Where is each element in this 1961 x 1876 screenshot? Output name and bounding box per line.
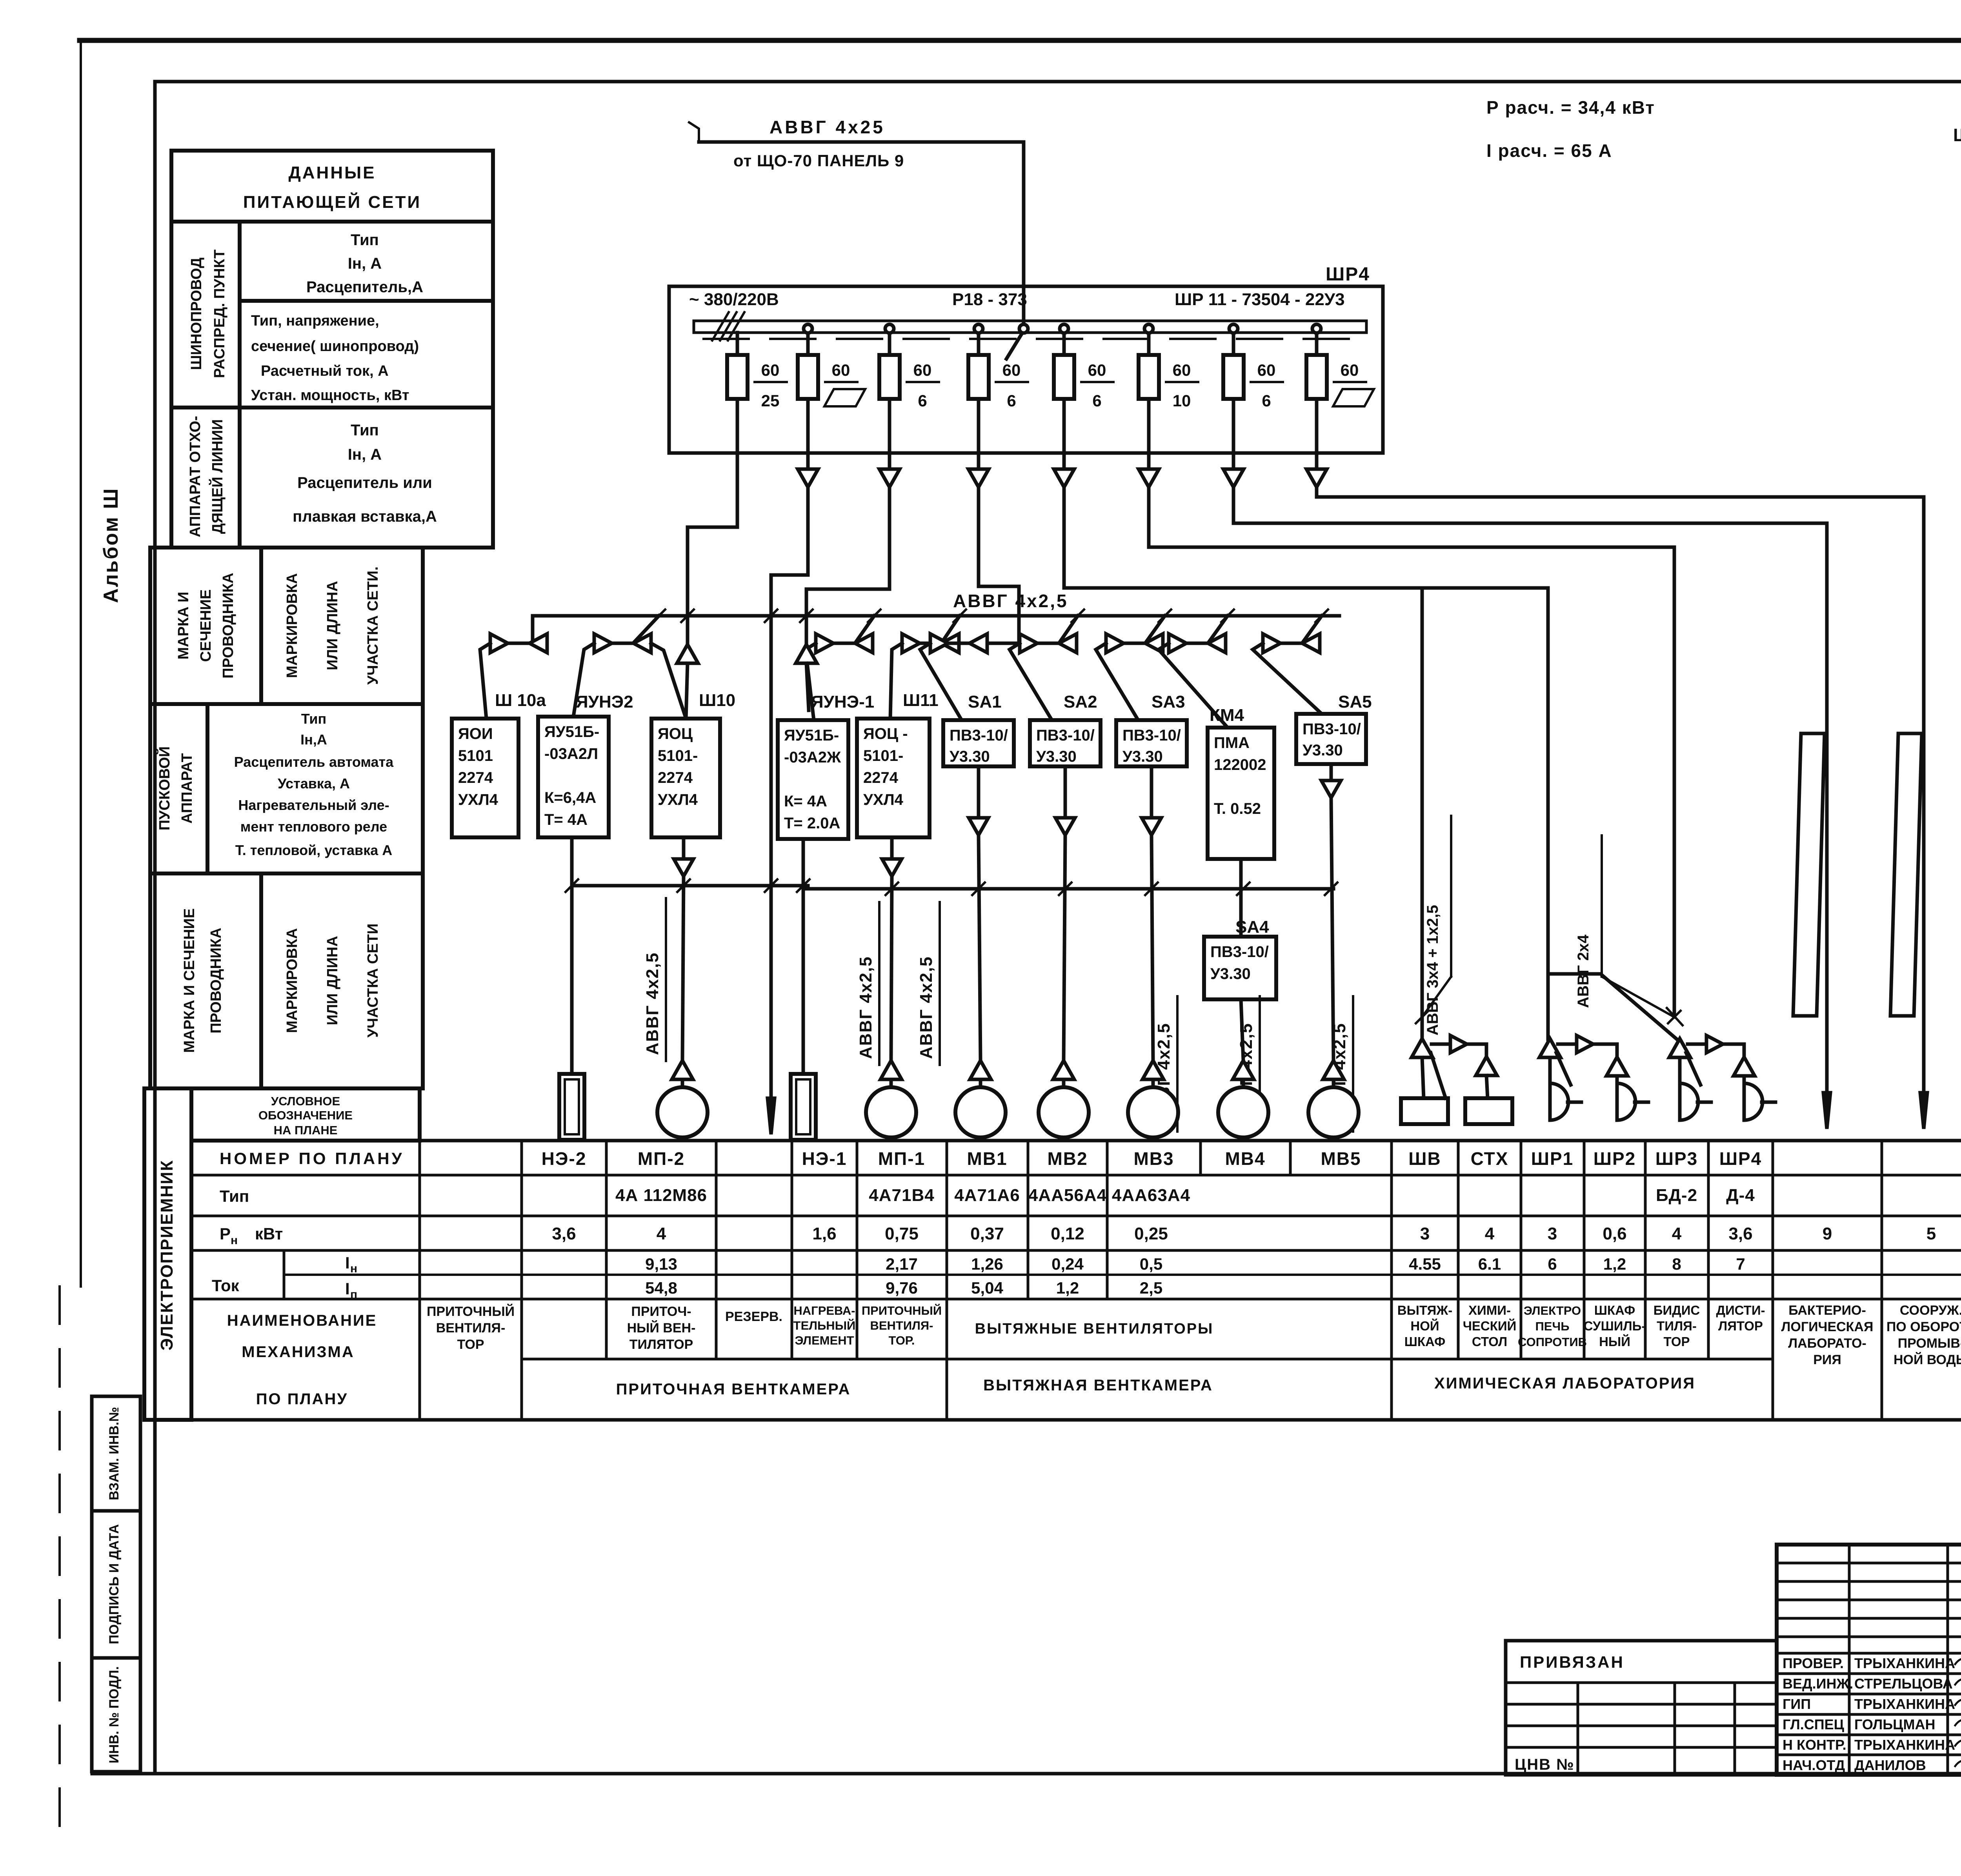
plug connector Sh10 riser [677, 644, 698, 663]
busbar tap circle 4 [974, 324, 983, 333]
svg-text:0,5: 0,5 [1140, 1255, 1162, 1273]
svg-text:60: 60 [1088, 361, 1106, 379]
svg-text:Iн, А: Iн, А [348, 446, 382, 463]
wire SA box down to motor MV2 [1064, 766, 1067, 818]
svg-text:МВ1: МВ1 [967, 1148, 1007, 1169]
wire ShV STX feeder [1421, 588, 1424, 1039]
svg-text:МЕХАНИЗМА: МЕХАНИЗМА [242, 1343, 354, 1361]
tok sub cell [283, 1250, 286, 1299]
wire YaUNE2 box to heater NE-2 [570, 837, 574, 1074]
motor MV1 [955, 1087, 1006, 1137]
svg-text:ПРИТОЧНАЯ ВЕНТКАМЕРА: ПРИТОЧНАЯ ВЕНТКАМЕРА [616, 1381, 851, 1398]
svg-text:9,13: 9,13 [645, 1255, 677, 1273]
svg-text:25: 25 [761, 391, 780, 410]
luminaire panel symbol 1 [1793, 733, 1825, 1016]
svg-text:ЛОГИЧЕСКАЯ: ЛОГИЧЕСКАЯ [1781, 1319, 1874, 1334]
svg-text:Тип: Тип [220, 1187, 249, 1205]
svg-text:60: 60 [1257, 361, 1276, 379]
heater NE-1 [791, 1074, 816, 1140]
svg-text:I: I [345, 1279, 350, 1298]
svg-text:У3.30: У3.30 [950, 748, 990, 765]
svg-text:ГИП: ГИП [1783, 1696, 1811, 1712]
svg-text:ДЯЩЕЙ ЛИНИИ: ДЯЩЕЙ ЛИНИИ [208, 419, 226, 534]
plug connector YaUNE-1 riser [796, 644, 817, 663]
svg-text:ЛЯТОР: ЛЯТОР [1718, 1319, 1763, 1333]
resistive load CTX [1465, 1098, 1512, 1124]
svg-text:0,37: 0,37 [970, 1224, 1004, 1243]
svg-text:РАСПРЕД. ПУНКТ: РАСПРЕД. ПУНКТ [211, 249, 228, 378]
wire bus tap to YaUNE-1 connector [856, 616, 874, 642]
wire SA5 connector to box [1253, 643, 1322, 714]
wire Sh11 box down [890, 837, 894, 859]
svg-text:4А 112М86: 4А 112М86 [615, 1186, 707, 1205]
wire YaUNE2 connector to Sh10 box [651, 643, 686, 719]
svg-text:~ 380/220В: ~ 380/220В [689, 290, 779, 309]
plug connector below MV3 [1142, 818, 1161, 835]
svg-text:5101-: 5101- [863, 747, 903, 764]
svg-text:60: 60 [1341, 361, 1359, 379]
wire Sh10a connector to box [480, 643, 490, 719]
svg-text:0,6: 0,6 [1603, 1224, 1626, 1243]
svg-text:Р расч. = 34,4 кВт: Р расч. = 34,4 кВт [1486, 97, 1655, 118]
svg-text:НА ПЛАНЕ: НА ПЛАНЕ [274, 1123, 338, 1137]
feeder tap circle [1019, 324, 1028, 333]
feeder switch slash [1006, 329, 1024, 359]
fuse FU2 [798, 355, 818, 399]
socket ShR2 [1617, 1083, 1635, 1120]
svg-text:3,6: 3,6 [1728, 1224, 1752, 1243]
node wire B [806, 887, 1333, 891]
svg-text:5101-: 5101- [658, 747, 698, 764]
svg-text:1,2: 1,2 [1603, 1255, 1626, 1273]
svg-text:ПВ3-10/: ПВ3-10/ [1210, 943, 1269, 961]
wire bus tap to KM4 connector [1209, 616, 1228, 642]
svg-text:ПЕЧЬ: ПЕЧЬ [1535, 1319, 1569, 1333]
wire drop4 to SA1 connector [979, 487, 1019, 643]
motor MP-1 [866, 1087, 916, 1137]
svg-text:К=6,4А: К=6,4А [544, 789, 596, 806]
svg-text:4.55: 4.55 [1409, 1255, 1441, 1273]
wire Sh10 box down [682, 837, 686, 859]
svg-text:4АА56А4: 4АА56А4 [1028, 1186, 1107, 1205]
svg-text:ПО ОБОРОТУ: ПО ОБОРОТУ [1886, 1319, 1961, 1334]
socket ShR1 [1550, 1083, 1568, 1120]
svg-text:Тип: Тип [351, 422, 379, 439]
table column lines [520, 1141, 523, 1420]
svg-text:ЭЛЕМЕНТ: ЭЛЕМЕНТ [795, 1334, 854, 1347]
svg-text:4: 4 [1672, 1224, 1682, 1243]
wire to motor MP-2 [682, 876, 684, 1061]
svg-text:SA1: SA1 [968, 692, 1002, 711]
busbar tap circle 5 [1060, 324, 1068, 333]
svg-text:МАРКИРОВКА: МАРКИРОВКА [284, 573, 300, 678]
svg-text:ПРИВЯЗАН: ПРИВЯЗАН [1520, 1653, 1624, 1671]
svg-text:МП-1: МП-1 [878, 1148, 925, 1169]
header band marka i sechenie 2 [150, 873, 423, 1088]
fuse circuit 6 wire [1147, 333, 1151, 453]
wire drop3 to YaUNE-1 riser [806, 487, 890, 644]
CTX branch connector [1476, 1057, 1497, 1075]
svg-text:ОБОЗНАЧЕНИЕ: ОБОЗНАЧЕНИЕ [258, 1108, 353, 1122]
fuse FU4 [968, 355, 989, 399]
wire KM4 connector to box [1159, 643, 1228, 728]
svg-text:60: 60 [1002, 361, 1021, 379]
node wire A [572, 884, 808, 888]
svg-text:Ш 10а: Ш 10а [495, 691, 546, 710]
svg-text:ВЫТЯЖНЫЕ ВЕНТИЛЯТОРЫ: ВЫТЯЖНЫЕ ВЕНТИЛЯТОРЫ [975, 1321, 1214, 1337]
svg-text:SA3: SA3 [1151, 692, 1185, 711]
plug connector below panel circuit 2 [806, 453, 810, 469]
svg-text:Расцепитель или: Расцепитель или [297, 474, 432, 491]
svg-text:ТОР: ТОР [1663, 1334, 1690, 1349]
svg-text:НЫЙ: НЫЙ [1599, 1334, 1630, 1349]
wire bus end to Sh10a connector [533, 616, 547, 643]
svg-text:ЩО 70 ПАНЕЛЬ 1: ЩО 70 ПАНЕЛЬ 1 [1953, 125, 1961, 145]
svg-text:Т= 2.0А: Т= 2.0А [784, 815, 840, 832]
svg-text:0,12: 0,12 [1051, 1224, 1084, 1243]
svg-text:кВт: кВт [255, 1225, 283, 1243]
svg-text:4АА63А4: 4АА63А4 [1112, 1186, 1190, 1205]
wire drop5 to ShV and ShR1 feeders [1064, 487, 1548, 588]
motor MV2 plug connector [1053, 1061, 1074, 1079]
svg-text:ГОЛЬЦМАН: ГОЛЬЦМАН [1854, 1716, 1935, 1732]
svg-text:ПРОВЕР.: ПРОВЕР. [1783, 1655, 1844, 1671]
svg-text:0,24: 0,24 [1051, 1255, 1084, 1273]
svg-text:ПРОВОДНИКА: ПРОВОДНИКА [208, 928, 224, 1034]
svg-text:ЯОЦ: ЯОЦ [658, 725, 693, 742]
svg-text:ПРОМЫВ-: ПРОМЫВ- [1898, 1336, 1961, 1351]
wire SA4 to motor MV4 [1241, 999, 1243, 1061]
svg-text:60: 60 [832, 361, 850, 379]
starter SA1 box [943, 720, 1014, 766]
svg-text:Нагревательный эле-: Нагревательный эле- [238, 797, 389, 813]
svg-text:Ток: Ток [212, 1276, 240, 1295]
starter SA5 box [1296, 714, 1366, 764]
washing water feeder arrow [1920, 1093, 1927, 1129]
svg-text:РИЯ: РИЯ [1813, 1352, 1841, 1367]
motor MP-1 plug connector [880, 1061, 902, 1079]
junction tick ShR feeder [1667, 1008, 1683, 1025]
svg-text:СТХ: СТХ [1471, 1148, 1509, 1169]
svg-text:2274: 2274 [458, 769, 493, 786]
wire Sh11 connector to box [890, 643, 902, 719]
svg-text:НЭ-2: НЭ-2 [542, 1148, 587, 1169]
plug connector pair YaUNE2 [594, 634, 612, 653]
svg-text:ШКАФ: ШКАФ [1594, 1303, 1635, 1317]
svg-text:НЫЙ ВЕН-: НЫЙ ВЕН- [627, 1320, 696, 1336]
plug connector pair Sh11 [902, 634, 920, 653]
svg-text:Ш11: Ш11 [903, 691, 939, 710]
wire bus tap to SA3 connector [1146, 616, 1165, 642]
svg-text:ШВ: ШВ [1408, 1148, 1441, 1169]
svg-text:SA2: SA2 [1064, 692, 1097, 711]
plug connector below panel circuit 4 [977, 453, 980, 469]
fuse FU1 [727, 355, 748, 399]
svg-text:ШР3: ШР3 [1655, 1148, 1698, 1169]
svg-text:ДАНИЛОВ: ДАНИЛОВ [1854, 1757, 1926, 1773]
svg-text:9: 9 [1823, 1224, 1832, 1243]
svg-text:ТИЛЯ-: ТИЛЯ- [1657, 1319, 1697, 1333]
svg-text:ТРЫХАНКИНА: ТРЫХАНКИНА [1854, 1696, 1955, 1712]
svg-text:МАРКА И СЕЧЕНИЕ: МАРКА И СЕЧЕНИЕ [181, 908, 198, 1053]
svg-text:3,6: 3,6 [552, 1224, 576, 1243]
svg-text:НОЙ: НОЙ [1410, 1318, 1439, 1333]
socket ShR3 [1680, 1083, 1698, 1120]
plug connector below panel circuit 8 [1315, 453, 1319, 469]
svg-text:ПРОВОДНИКА: ПРОВОДНИКА [220, 573, 236, 679]
svg-text:СООРУЖ.: СООРУЖ. [1900, 1303, 1961, 1318]
plug connector pair SA3 [1106, 634, 1124, 653]
busbar [694, 321, 1366, 333]
svg-text:НАИМЕНОВАНИЕ: НАИМЕНОВАНИЕ [227, 1312, 377, 1329]
svg-text:ЯУНЭ-1: ЯУНЭ-1 [811, 692, 874, 711]
svg-text:МВ5: МВ5 [1321, 1148, 1361, 1169]
feeder end hook [689, 122, 699, 142]
svg-text:SA5: SA5 [1338, 692, 1372, 711]
svg-text:НОМЕР ПО ПЛАНУ: НОМЕР ПО ПЛАНУ [220, 1149, 404, 1168]
svg-text:6: 6 [1092, 391, 1101, 410]
laboratory feeder arrow [1823, 1093, 1830, 1129]
starter Sh10 box [651, 719, 720, 837]
svg-text:У3.30: У3.30 [1210, 965, 1251, 983]
svg-text:Тип: Тип [301, 711, 327, 727]
resistive load ShV [1401, 1098, 1448, 1124]
svg-text:СУШИЛЬ-: СУШИЛЬ- [1584, 1319, 1646, 1333]
fuse FU7 [1223, 355, 1244, 399]
svg-text:ТЕЛЬНЫЙ: ТЕЛЬНЫЙ [793, 1318, 856, 1332]
svg-text:НЭ-1: НЭ-1 [802, 1148, 847, 1169]
svg-text:4А71В4: 4А71В4 [869, 1186, 934, 1205]
svg-text:3: 3 [1548, 1224, 1557, 1243]
svg-text:ХИМИ-: ХИМИ- [1468, 1303, 1511, 1317]
motor MV3 plug connector [1142, 1061, 1164, 1079]
svg-text:54,8: 54,8 [645, 1279, 677, 1297]
fuse FU5 [1054, 355, 1074, 399]
svg-text:ЧЕСКИЙ: ЧЕСКИЙ [1463, 1318, 1517, 1333]
wire drop6 to ShR3 feeder [1149, 487, 1674, 1017]
svg-text:ЦНВ №: ЦНВ № [1515, 1756, 1575, 1773]
svg-text:-03А2Ж: -03А2Ж [784, 749, 841, 766]
svg-text:3: 3 [1420, 1224, 1430, 1243]
svg-text:АВВГ 4х2,5: АВВГ 4х2,5 [953, 591, 1068, 611]
motor MV1 plug connector [970, 1061, 991, 1079]
svg-text:1,2: 1,2 [1056, 1279, 1079, 1297]
svg-text:У3.30: У3.30 [1122, 748, 1163, 765]
svg-text:60: 60 [913, 361, 932, 379]
wire ShR3/ShR4 branch diagonal [1548, 974, 1683, 1044]
svg-text:ПОДПИСЬ И ДАТА: ПОДПИСЬ И ДАТА [107, 1524, 122, 1644]
plug connector below MV1 [969, 818, 988, 835]
svg-text:Расцепитель,А: Расцепитель,А [306, 278, 423, 296]
svg-text:ПВ3-10/: ПВ3-10/ [1302, 721, 1361, 738]
plug connector pair SA5 [1263, 634, 1281, 653]
svg-text:НАЧ.ОТД: НАЧ.ОТД [1783, 1757, 1845, 1773]
header band shinoprovod [171, 222, 493, 408]
fuse FU8 [1306, 355, 1327, 399]
svg-text:ЯУНЭ2: ЯУНЭ2 [576, 692, 633, 711]
svg-text:ШКАФ: ШКАФ [1404, 1334, 1445, 1349]
starter Sh10a box [452, 719, 518, 837]
wire SA5 box down to motor MV5 [1330, 764, 1333, 781]
wire KM4 box to SA4 [1239, 859, 1243, 937]
heater NE-2 [559, 1074, 584, 1140]
sidebar box podpis i data [92, 1511, 140, 1658]
svg-text:Д-4: Д-4 [1726, 1186, 1755, 1205]
table row lines [191, 1174, 1961, 1177]
fuse FU6 [1139, 355, 1159, 399]
svg-text:МВ4: МВ4 [1225, 1148, 1265, 1169]
svg-text:Р: Р [220, 1225, 231, 1243]
plug connector pair KM4 [1169, 634, 1186, 653]
svg-text:АППАРАТ ОТХО-: АППАРАТ ОТХО- [187, 416, 204, 537]
svg-text:6.1: 6.1 [1478, 1255, 1501, 1273]
svg-text:ВЗАМ. ИНВ.№: ВЗАМ. ИНВ.№ [107, 1407, 122, 1500]
connector bus wire AVVG 4x2,5 [533, 614, 1339, 618]
svg-text:ЯУ51Б-: ЯУ51Б- [544, 723, 599, 741]
svg-text:н: н [350, 1262, 357, 1275]
svg-text:1,26: 1,26 [971, 1255, 1003, 1273]
svg-text:ШР1: ШР1 [1531, 1148, 1574, 1169]
svg-text:4: 4 [1485, 1224, 1495, 1243]
fuse circuit 2 wire [806, 333, 810, 453]
motor MV4 [1218, 1087, 1268, 1137]
svg-text:н: н [231, 1234, 238, 1247]
svg-text:ШР4: ШР4 [1326, 264, 1370, 285]
svg-text:АВВГ 4х25: АВВГ 4х25 [769, 117, 885, 137]
svg-text:СТОЛ: СТОЛ [1472, 1334, 1507, 1349]
svg-text:ШИНОПРОВОД: ШИНОПРОВОД [188, 258, 205, 370]
busbar tap circle 8 [1312, 324, 1321, 333]
plug connector below Sh10 [674, 859, 693, 876]
svg-text:сечение( шинопровод): сечение( шинопровод) [251, 338, 419, 355]
starter YaUNE2 box [538, 717, 609, 837]
svg-text:ПУСКОВОЙ: ПУСКОВОЙ [155, 746, 173, 831]
svg-text:ТРЫХАНКИНА: ТРЫХАНКИНА [1854, 1655, 1955, 1671]
svg-text:ПРИТОЧНЫЙ: ПРИТОЧНЫЙ [427, 1304, 515, 1319]
wire SA box down to motor MV1 [977, 766, 980, 818]
svg-text:ТОР: ТОР [457, 1337, 484, 1352]
svg-text:Расцепитель автомата: Расцепитель автомата [234, 754, 394, 770]
luminaire panel symbol 2 [1890, 733, 1922, 1016]
svg-text:ШР 11 - 73504 - 22У3: ШР 11 - 73504 - 22У3 [1175, 290, 1345, 309]
motor MV2 [1039, 1087, 1089, 1137]
svg-text:АППАРАТ: АППАРАТ [179, 753, 195, 824]
svg-text:БИДИС: БИДИС [1654, 1303, 1700, 1317]
svg-text:Р18 - 373: Р18 - 373 [952, 290, 1027, 309]
svg-text:ВЕНТИЛЯ-: ВЕНТИЛЯ- [436, 1321, 506, 1336]
svg-text:Тип: Тип [351, 231, 379, 249]
reserve feeder arrow [768, 1098, 775, 1134]
svg-text:СЕЧЕНИЕ: СЕЧЕНИЕ [198, 590, 214, 662]
svg-text:ЯОИ: ЯОИ [458, 725, 493, 742]
svg-text:ПИТАЮЩЕЙ СЕТИ: ПИТАЮЩЕЙ СЕТИ [243, 192, 421, 212]
wire bus tap to YaUNE2 connector [634, 616, 659, 642]
plug connector below panel circuit 3 [888, 453, 891, 469]
svg-text:МВ3: МВ3 [1133, 1148, 1174, 1169]
svg-text:У3.30: У3.30 [1302, 742, 1343, 759]
starter KM4 box [1208, 728, 1274, 859]
svg-text:УСЛОВНОЕ: УСЛОВНОЕ [271, 1094, 340, 1108]
svg-text:Устан. мощность, кВт: Устан. мощность, кВт [251, 387, 409, 404]
busbar phase hatch [712, 312, 729, 340]
svg-text:60: 60 [1173, 361, 1191, 379]
svg-text:2274: 2274 [658, 769, 693, 786]
svg-text:УЧАСТКА СЕТИ.: УЧАСТКА СЕТИ. [365, 566, 381, 685]
svg-text:6: 6 [1262, 391, 1271, 410]
motor MV5 [1308, 1087, 1359, 1137]
svg-text:ЯУ51Б-: ЯУ51Б- [784, 727, 839, 744]
svg-text:ДАННЫЕ: ДАННЫЕ [288, 163, 376, 182]
starter Sh11 box [857, 719, 930, 837]
svg-text:п: п [350, 1288, 357, 1301]
svg-text:ГЛ.СПЕЦ: ГЛ.СПЕЦ [1783, 1716, 1845, 1732]
svg-text:МП-2: МП-2 [638, 1148, 685, 1169]
wire bus tap to SA2 connector [1060, 616, 1078, 642]
svg-text:ШР2: ШР2 [1594, 1148, 1636, 1169]
wire SA3 connector to box [1096, 643, 1138, 720]
starter SA3 box [1116, 720, 1187, 766]
neutral dashed line [704, 338, 1353, 340]
motor MP-2 [657, 1087, 708, 1137]
svg-text:К= 4А: К= 4А [784, 793, 827, 810]
svg-text:МАРКА И: МАРКА И [175, 592, 192, 660]
svg-text:122002: 122002 [1214, 756, 1266, 773]
junction tick on ShR3 feeder [1668, 1011, 1681, 1023]
elektropriemnik sidebar [144, 1088, 191, 1420]
svg-text:УЧАСТКА СЕТИ: УЧАСТКА СЕТИ [365, 923, 381, 1037]
svg-text:5101: 5101 [458, 747, 493, 764]
svg-text:6: 6 [1007, 391, 1016, 410]
svg-text:5,04: 5,04 [971, 1279, 1003, 1297]
sidebar box vzam inv [92, 1396, 140, 1511]
svg-text:SA4: SA4 [1235, 917, 1269, 937]
inner frame top [155, 80, 1961, 84]
svg-text:4А71А6: 4А71А6 [954, 1186, 1020, 1205]
wire drop8 to washing water feeder [1317, 487, 1924, 1093]
svg-text:ПВ3-10/: ПВ3-10/ [1122, 727, 1181, 744]
svg-text:6: 6 [918, 391, 927, 410]
busbar tap circle 3 [885, 324, 894, 333]
sheet outer border left [80, 40, 82, 1286]
title block columns [1848, 1545, 1851, 1775]
switch SA4 box [1204, 937, 1276, 999]
svg-text:УХЛ4: УХЛ4 [863, 791, 904, 808]
svg-text:ИЛИ ДЛИНА: ИЛИ ДЛИНА [324, 581, 341, 670]
svg-text:ИНВ. № ПОДЛ.: ИНВ. № ПОДЛ. [107, 1666, 122, 1763]
svg-text:60: 60 [761, 361, 780, 379]
svg-text:Уставка, А: Уставка, А [278, 775, 350, 792]
motor MV3 [1128, 1087, 1178, 1137]
svg-text:РЕЗЕРВ.: РЕЗЕРВ. [725, 1309, 782, 1324]
svg-text:МАРКИРОВКА: МАРКИРОВКА [284, 928, 300, 1033]
plug connector below panel circuit 6 [1147, 453, 1151, 469]
svg-text:НОЙ ВОДЫ: НОЙ ВОДЫ [1894, 1352, 1961, 1367]
svg-text:0,25: 0,25 [1134, 1224, 1168, 1243]
svg-text:ИЛИ ДЛИНА: ИЛИ ДЛИНА [324, 936, 341, 1025]
svg-text:9,76: 9,76 [886, 1279, 918, 1297]
svg-text:7: 7 [1736, 1255, 1745, 1273]
svg-text:Iн,А: Iн,А [300, 731, 327, 748]
busbar tap circle 6 [1144, 324, 1153, 333]
starter YaUNE-1 box [778, 720, 848, 839]
svg-text:ПРИТОЧ-: ПРИТОЧ- [631, 1304, 691, 1319]
svg-text:Ш10: Ш10 [699, 691, 735, 710]
svg-text:1,6: 1,6 [812, 1224, 836, 1243]
svg-text:Альбом Ш: Альбом Ш [100, 488, 122, 603]
fuse FU3 [879, 355, 900, 399]
wire SA box down to motor MV3 [1150, 766, 1153, 818]
junction ticks on node wires [566, 879, 578, 892]
